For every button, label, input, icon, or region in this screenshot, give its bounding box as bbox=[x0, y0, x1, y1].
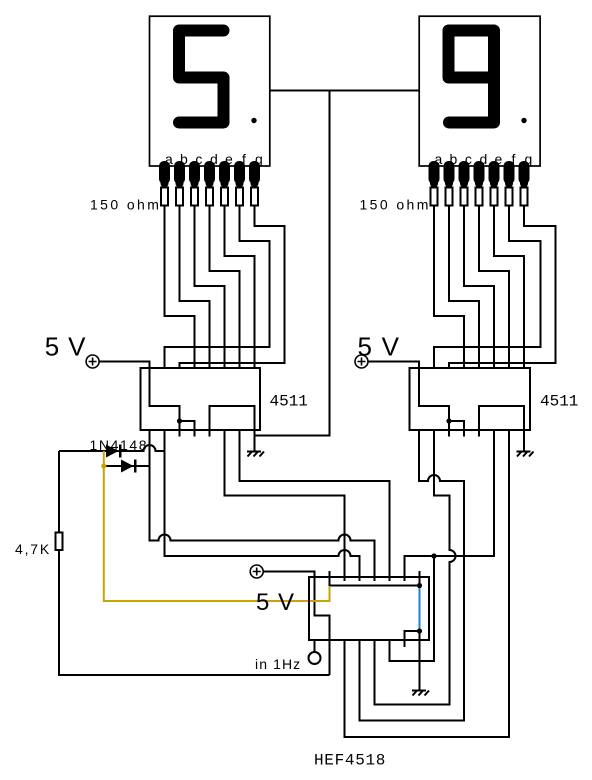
diode D1 1N4148 bbox=[106, 445, 122, 458]
wire 5V to counter bbox=[263, 572, 329, 676]
resistor 4,7K bbox=[56, 533, 63, 551]
IC 4511 right box bbox=[410, 368, 531, 430]
input terminal circle bbox=[309, 652, 321, 664]
display DS2 box bbox=[419, 16, 540, 166]
wire right 4511 pin D to counter bbox=[345, 430, 510, 737]
blue wire carry link bbox=[419, 586, 421, 632]
svg-text:150 ohm: 150 ohm bbox=[360, 197, 431, 213]
junction dot left 4511 bbox=[177, 418, 182, 423]
wire right LE pin to ground bbox=[479, 406, 524, 452]
wire 4,7K resistor bottom loop bbox=[59, 550, 330, 675]
wire through diode D2 bbox=[104, 465, 150, 467]
diode D2 1N4148 bbox=[121, 460, 137, 473]
wire segment d display2 to 4511 bbox=[479, 206, 509, 370]
digit 5 of display DS1 bbox=[179, 31, 224, 123]
wire segment c display1 to 4511 bbox=[195, 206, 225, 370]
power symbol 5V right bbox=[355, 355, 368, 368]
wire branch to BI pin right bbox=[449, 421, 464, 437]
wire right 4511 pin B to counter via loop with vertical hop bbox=[375, 430, 456, 705]
wire reset node through diode D1 with hop bbox=[59, 445, 165, 451]
junction dot counter enable bbox=[417, 583, 422, 588]
power symbol 5V counter bbox=[250, 565, 263, 578]
wire segment a display1 to 4511 bbox=[165, 206, 195, 370]
IC 4511 left box bbox=[141, 368, 261, 430]
wire segment b display2 to 4511 bbox=[449, 206, 479, 370]
wire right 4511 pin C to counter enable bbox=[405, 430, 495, 581]
ground symbol right 4511 bbox=[517, 452, 534, 457]
wire segment f display2 to 4511 bbox=[434, 206, 541, 370]
wire branch to BI pin bbox=[180, 421, 195, 437]
wire left 4511 pin D to counter bbox=[240, 430, 390, 581]
digit 9 of display DS2 bbox=[449, 31, 495, 123]
wire right 4511 pin A to counter via loop with hop bbox=[360, 430, 465, 721]
wire 4,7K resistor top bbox=[58, 451, 60, 533]
wire segment f display1 to 4511 bbox=[165, 206, 270, 370]
display DS1 box bbox=[150, 16, 270, 166]
IC HEF4518 box bbox=[309, 577, 429, 640]
svg-text:5 V: 5 V bbox=[358, 332, 401, 362]
svg-text:HEF4518: HEF4518 bbox=[314, 752, 386, 770]
wire 5V to left 4511 LT BI pins bbox=[99, 362, 180, 437]
wire segment g display1 to 4511 bbox=[180, 206, 285, 370]
ground symbol counter bbox=[412, 691, 429, 696]
wire counter carry to reset pin bbox=[405, 631, 420, 647]
wire segment c display2 to 4511 bbox=[464, 206, 494, 370]
junction dot loop bbox=[431, 553, 436, 558]
svg-text:1N4148: 1N4148 bbox=[90, 437, 149, 453]
power symbol 5V left bbox=[86, 355, 99, 368]
pin tick counter top right bbox=[419, 571, 421, 586]
junction dot yellow bbox=[101, 463, 106, 468]
ground symbol left 4511 bbox=[247, 452, 264, 457]
wire under counter loop bbox=[390, 556, 435, 661]
wire segment e display1 to 4511 bbox=[225, 206, 255, 370]
wire input pin stub bbox=[314, 640, 316, 652]
wire segment b display1 to 4511 bbox=[180, 206, 210, 370]
wire 5V to right 4511 LT BI pins bbox=[368, 362, 449, 437]
wire left 4511 pin B to counter with hop bbox=[165, 430, 360, 581]
display DS2 pins bbox=[429, 161, 530, 188]
svg-text:5 V: 5 V bbox=[45, 332, 86, 362]
resistors 150 ohm DS2 bbox=[431, 188, 528, 206]
svg-text:4511: 4511 bbox=[540, 393, 578, 411]
wire display1 common to display2 bbox=[270, 90, 419, 92]
wire LE pin to ground bbox=[210, 406, 255, 452]
wire segment d display1 to 4511 bbox=[210, 206, 240, 370]
svg-text:5 V: 5 V bbox=[256, 589, 295, 616]
display DS1 pins bbox=[159, 161, 260, 188]
wire common down to ground node bbox=[255, 91, 330, 436]
wire counter internal enable node bbox=[330, 571, 420, 586]
decimal point DS2 bbox=[521, 118, 526, 123]
wire segment e display2 to 4511 bbox=[494, 206, 524, 370]
resistors 150 ohm DS1 bbox=[161, 188, 258, 206]
svg-text:4511: 4511 bbox=[270, 393, 308, 411]
svg-text:150 ohm: 150 ohm bbox=[90, 197, 161, 213]
svg-text:4,7K: 4,7K bbox=[15, 541, 51, 557]
junction dot counter carry bbox=[417, 628, 422, 633]
wire segment g display2 to 4511 bbox=[449, 206, 556, 370]
wire counter ground bbox=[419, 631, 421, 691]
svg-text:in 1Hz: in 1Hz bbox=[255, 656, 301, 672]
yellow wire reset net bbox=[104, 451, 330, 601]
wire left 4511 pin C to counter bbox=[225, 430, 345, 581]
decimal point DS1 bbox=[251, 118, 256, 123]
wire segment a display2 to 4511 bbox=[434, 206, 464, 370]
wire left 4511 pin A to counter with hops bbox=[150, 430, 375, 581]
junction dot right 4511 bbox=[446, 418, 451, 423]
